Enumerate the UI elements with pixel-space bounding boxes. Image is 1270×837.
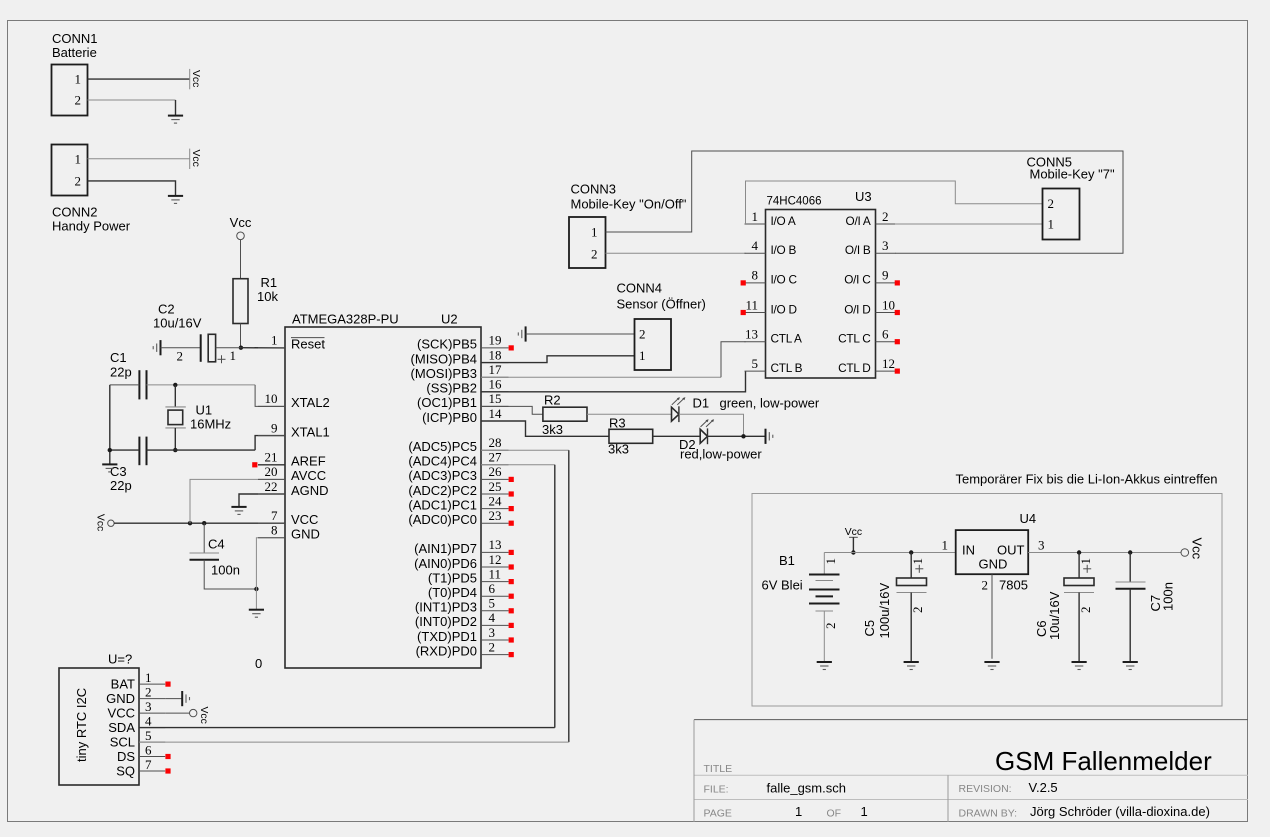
svg-text:7: 7: [271, 508, 278, 523]
junction C6 top: [1077, 550, 1081, 554]
svg-text:Vcc: Vcc: [845, 527, 862, 538]
crystal U1 16MHz: [174, 385, 176, 407]
svg-text:Vcc: Vcc: [230, 215, 252, 230]
svg-text:GSM Fallenmelder: GSM Fallenmelder: [995, 746, 1212, 776]
power section frame: [752, 494, 1222, 707]
U2 pin 9 XTAL1: [258, 435, 285, 437]
svg-text:C2: C2: [158, 302, 175, 317]
U2 pin 13 (AIN1)PD7: [481, 551, 509, 553]
svg-text:6: 6: [489, 581, 496, 596]
wire U2 pin18 to CONN4 pin1: [481, 356, 635, 363]
RTC pin 6 DS: [139, 756, 165, 758]
svg-text:Sensor (Öffner): Sensor (Öffner): [617, 297, 706, 312]
svg-text:1: 1: [752, 209, 759, 224]
resistor R1: [233, 279, 248, 324]
svg-text:(ADC0)PC0: (ADC0)PC0: [408, 512, 477, 527]
svg-text:6: 6: [145, 743, 152, 758]
svg-text:8: 8: [271, 523, 278, 538]
junction crystal top: [173, 383, 177, 387]
svg-text:1: 1: [75, 72, 82, 87]
junction LED gnd node: [741, 434, 745, 438]
svg-text:Reset: Reset: [291, 337, 325, 352]
unconnected marker U3 pin 10: [895, 310, 900, 315]
svg-text:20: 20: [265, 464, 278, 479]
svg-text:17: 17: [489, 362, 503, 377]
svg-text:tiny RTC I2C: tiny RTC I2C: [74, 688, 89, 762]
capacitor C6 10u/16V polarized: [1078, 553, 1080, 579]
svg-text:3: 3: [489, 625, 496, 640]
junction C5 top: [909, 550, 913, 554]
unconnected marker U2 pin 13: [509, 550, 514, 555]
unconnected marker U2 pin 11: [509, 579, 514, 584]
ground at CONN2: [168, 195, 183, 197]
svg-text:IN: IN: [962, 543, 975, 558]
U2 pin 19 (SCK)PB5: [481, 347, 509, 349]
svg-text:green, low-power: green, low-power: [720, 396, 820, 411]
svg-text:Vcc: Vcc: [1190, 538, 1205, 560]
svg-text:O/I D: O/I D: [844, 302, 870, 316]
svg-text:2: 2: [75, 173, 82, 188]
U2 pin 23 (ADC0)PC0: [481, 522, 509, 524]
svg-text:R3: R3: [609, 416, 626, 431]
wire RTC SDA: [139, 727, 555, 729]
svg-text:1: 1: [145, 670, 152, 685]
svg-text:CONN4: CONN4: [617, 281, 663, 296]
ground below C7: [1123, 661, 1138, 663]
wire CONN1 pin2 to ground: [88, 99, 176, 101]
svg-text:O/I B: O/I B: [845, 243, 871, 257]
U2 pin 24 (ADC1)PC1: [481, 508, 509, 510]
wire CONN3 pin1 loop to U3 O/I B: [606, 151, 1124, 253]
U2 pin 16 (SS)PB2: [481, 391, 509, 393]
U2 pin 7 VCC: [258, 522, 285, 524]
svg-text:5: 5: [145, 728, 152, 743]
U2 pin 1 Reset: [258, 347, 285, 349]
resistor R2 3k3: [543, 407, 587, 421]
svg-text:13: 13: [745, 327, 758, 342]
svg-text:1: 1: [861, 804, 868, 819]
capacitor C5 100u/16V polarized: [910, 553, 912, 579]
junction AVCC join: [188, 521, 192, 525]
wire XTAL2 net top rail: [110, 384, 140, 386]
capacitor C2 10u/16V polarized: [200, 334, 202, 362]
svg-text:Temporärer Fix bis die Li-Ion-: Temporärer Fix bis die Li-Ion-Akkus eint…: [956, 472, 1218, 487]
svg-text:(ADC5)PC5: (ADC5)PC5: [408, 439, 477, 454]
svg-text:Vcc: Vcc: [198, 707, 209, 724]
U2 pin 11 (T1)PD5: [481, 581, 509, 583]
svg-text:100n: 100n: [211, 563, 240, 578]
unconnected marker U2 pin 6: [509, 594, 514, 599]
wire ground to CONN4 pin2: [526, 333, 635, 335]
unconnected marker U3 pin 9: [895, 280, 900, 285]
unconnected marker RTC SQ: [165, 768, 170, 773]
svg-text:1: 1: [591, 224, 598, 239]
wire RTC VCC to Vcc: [165, 712, 189, 714]
svg-text:8: 8: [752, 268, 759, 283]
svg-text:1: 1: [795, 804, 802, 819]
unconnected marker U2 pin 23: [509, 521, 514, 526]
ground at RTC GND: [181, 691, 183, 706]
svg-text:1: 1: [75, 151, 82, 166]
svg-text:(INT0)PD2: (INT0)PD2: [415, 614, 477, 629]
svg-text:10u/16V: 10u/16V: [153, 316, 202, 331]
U2 pin 5 (INT1)PD3: [481, 610, 509, 612]
svg-text:(AIN0)PD6: (AIN0)PD6: [414, 556, 477, 571]
wire AGND to ground: [239, 494, 285, 507]
svg-text:25: 25: [489, 479, 502, 494]
junction GND net: [254, 587, 258, 591]
wire CONN3 pin2 to U3 I/O B: [606, 252, 746, 254]
svg-text:6: 6: [882, 327, 889, 342]
svg-text:3: 3: [145, 699, 152, 714]
svg-text:TITLE: TITLE: [704, 763, 733, 775]
connector CONN1: [52, 65, 88, 116]
svg-text:SCL: SCL: [110, 734, 135, 749]
svg-text:2: 2: [639, 326, 646, 341]
svg-text:Mobile-Key "7": Mobile-Key "7": [1030, 167, 1115, 182]
power Vcc at RTC VCC: [190, 709, 197, 716]
svg-text:O/I C: O/I C: [844, 273, 871, 287]
svg-text:(MOSI)PB3: (MOSI)PB3: [411, 366, 477, 381]
svg-text:12: 12: [882, 356, 895, 371]
svg-text:12: 12: [489, 552, 502, 567]
unconnected marker RTC DS: [165, 754, 170, 759]
svg-text:7805: 7805: [999, 578, 1028, 593]
wire CONN2 pin2 to ground: [88, 181, 176, 196]
svg-text:U4: U4: [1020, 511, 1037, 526]
RTC pin 4 SDA: [139, 727, 165, 729]
U3 pin 10 O/I D: [876, 312, 896, 314]
svg-text:27: 27: [489, 450, 503, 465]
IC RTC tiny RTC I2C U=?: [59, 668, 139, 785]
svg-text:GND: GND: [291, 527, 320, 542]
junction node Reset: [239, 346, 243, 350]
svg-text:26: 26: [489, 464, 503, 479]
svg-text:Vcc: Vcc: [95, 514, 106, 531]
svg-text:2: 2: [145, 685, 152, 700]
svg-text:Handy Power: Handy Power: [52, 219, 131, 234]
connector CONN4: [635, 319, 672, 370]
svg-text:OF: OF: [827, 808, 842, 820]
battery B1 6V Blei: [823, 553, 825, 575]
svg-text:BAT: BAT: [111, 676, 135, 691]
svg-text:0: 0: [255, 656, 262, 671]
svg-text:13: 13: [489, 537, 502, 552]
svg-text:(ICP)PB0: (ICP)PB0: [422, 410, 477, 425]
svg-text:1: 1: [942, 538, 949, 553]
svg-text:U2: U2: [441, 312, 458, 327]
svg-text:100u/16V: 100u/16V: [877, 583, 892, 639]
U2 pin 14 (ICP)PB0: [481, 420, 509, 422]
wire D2 to ground: [708, 435, 766, 437]
svg-text:XTAL1: XTAL1: [291, 424, 330, 439]
connector CONN2: [52, 145, 88, 196]
U3 pin 4 I/O B: [745, 252, 766, 254]
svg-text:(INT1)PD3: (INT1)PD3: [415, 600, 477, 615]
unconnected marker U3 pin 12: [895, 369, 900, 374]
svg-text:(SS)PB2: (SS)PB2: [426, 381, 477, 396]
capacitor C3 22p: [138, 437, 140, 466]
title block: [694, 719, 1248, 721]
svg-text:23: 23: [489, 508, 502, 523]
svg-text:C4: C4: [208, 537, 225, 552]
svg-text:REVISION:: REVISION:: [959, 783, 1012, 795]
wire U2 pin17 to U3 CTL A: [481, 376, 721, 378]
unconnected marker U2 pin 26: [509, 477, 514, 482]
svg-text:(ADC2)PC2: (ADC2)PC2: [408, 483, 477, 498]
U2 pin 21 AREF: [258, 464, 285, 466]
U2 pin 17 (MOSI)PB3: [481, 376, 509, 378]
svg-text:19: 19: [489, 333, 502, 348]
capacitor C4 100n: [203, 523, 205, 553]
svg-text:6V Blei: 6V Blei: [762, 578, 803, 593]
svg-text:22p: 22p: [110, 365, 132, 380]
U3 pin 5 CTL B: [745, 370, 766, 372]
RTC pin 2 GND: [139, 698, 165, 700]
U2 pin 28 (ADC5)PC5: [481, 449, 509, 451]
svg-text:9: 9: [882, 268, 889, 283]
svg-text:2: 2: [1048, 196, 1055, 211]
U2 pin 27 (ADC4)PC4: [481, 464, 509, 466]
wire U2 pin28 to SCL riser: [481, 449, 569, 451]
svg-text:(ADC4)PC4: (ADC4)PC4: [408, 454, 477, 469]
svg-text:2: 2: [591, 246, 598, 261]
ground right of D2: [765, 429, 767, 444]
RTC pin 1 BAT: [139, 683, 165, 685]
U2 pin 2 (RXD)PD0: [481, 654, 509, 656]
svg-text:DRAWN BY:: DRAWN BY:: [959, 808, 1018, 820]
svg-text:falle_gsm.sch: falle_gsm.sch: [767, 781, 846, 796]
svg-text:3: 3: [1038, 538, 1045, 553]
svg-text:ATMEGA328P-PU: ATMEGA328P-PU: [292, 312, 399, 327]
wire main 5V rail right: [1028, 552, 1181, 554]
svg-text:100n: 100n: [1161, 582, 1176, 611]
IC U3 74HC4066: [766, 210, 876, 379]
svg-text:(ADC1)PC1: (ADC1)PC1: [408, 497, 477, 512]
wire SCL riser: [568, 450, 570, 742]
svg-text:16MHz: 16MHz: [190, 417, 231, 432]
ground below U4: [984, 661, 999, 663]
svg-text:3k3: 3k3: [608, 442, 629, 457]
svg-text:2: 2: [823, 623, 838, 630]
wire U3 pin1 route to CONN5 pin2: [746, 181, 1043, 224]
U3 pin 8 I/O C: [745, 282, 766, 284]
unconnected marker U3 pin 6: [895, 339, 900, 344]
unconnected marker U2 pin 19: [509, 345, 514, 350]
svg-text:4: 4: [145, 714, 152, 729]
wire D1 to LED gnd node: [679, 414, 744, 436]
wire node Reset to U2 pin1: [241, 347, 285, 349]
svg-text:I/O A: I/O A: [771, 214, 796, 228]
svg-text:(OC1)PB1: (OC1)PB1: [417, 395, 477, 410]
svg-text:1: 1: [230, 348, 237, 363]
svg-text:22: 22: [265, 479, 278, 494]
wire CONN1 pin1 to Vcc: [88, 78, 190, 80]
U3 pin 3 O/I B: [876, 252, 896, 254]
svg-text:(MISO)PB4: (MISO)PB4: [411, 351, 477, 366]
svg-text:C3: C3: [110, 464, 127, 479]
svg-text:2: 2: [489, 639, 496, 654]
svg-text:O/I A: O/I A: [846, 214, 871, 228]
svg-text:(T1)PD5: (T1)PD5: [428, 570, 477, 585]
svg-text:11: 11: [745, 297, 758, 312]
wire U2 pin16 to U3 CTL B: [481, 371, 746, 392]
svg-text:FILE:: FILE:: [704, 784, 729, 796]
ground below C6: [1072, 661, 1087, 663]
svg-text:GND: GND: [106, 691, 135, 706]
svg-text:CTL C: CTL C: [838, 332, 871, 346]
svg-text:10: 10: [265, 391, 278, 406]
power Vcc at U2 VCC: [108, 520, 114, 526]
ground left of C2: [160, 340, 162, 355]
wire U3 pin2 to CONN5 pin1: [895, 223, 1043, 225]
svg-text:CONN1: CONN1: [52, 31, 98, 46]
wire ground to C2: [161, 347, 201, 349]
svg-text:10k: 10k: [257, 289, 278, 304]
svg-text:CONN3: CONN3: [571, 182, 617, 197]
unconnected marker U2 pin 21: [252, 462, 257, 467]
U2 pin 4 (INT0)PD2: [481, 624, 509, 626]
svg-text:10u/16V: 10u/16V: [1047, 591, 1062, 640]
svg-text:9: 9: [271, 420, 278, 435]
U2 pin 3 (TXD)PD1: [481, 639, 509, 641]
svg-text:AGND: AGND: [291, 483, 329, 498]
svg-text:Jörg Schröder (villa-dioxina.d: Jörg Schröder (villa-dioxina.de): [1030, 804, 1210, 819]
svg-text:Mobile-Key "On/Off": Mobile-Key "On/Off": [571, 197, 687, 212]
U4 pin2 GND down: [991, 574, 993, 659]
U2 pin 10 XTAL2: [258, 405, 285, 407]
unconnected marker U3 pin 8: [741, 280, 746, 285]
wire Vcc to U2 pin7: [114, 522, 285, 524]
ground at CONN1: [168, 115, 183, 117]
svg-text:Vcc: Vcc: [190, 70, 201, 87]
svg-text:R2: R2: [544, 393, 561, 408]
regulator U4 7805: [956, 530, 1028, 574]
svg-text:CONN2: CONN2: [52, 205, 98, 220]
wire AVCC to Vcc rail: [190, 479, 285, 523]
connector CONN5: [1043, 189, 1080, 240]
junction C7 top: [1128, 550, 1132, 554]
svg-text:5: 5: [752, 356, 759, 371]
svg-text:2: 2: [75, 93, 82, 108]
unconnected marker U2 pin 5: [509, 608, 514, 613]
svg-text:SDA: SDA: [108, 720, 135, 735]
U3 pin 2 O/I A: [876, 223, 896, 225]
svg-text:(ADC3)PC3: (ADC3)PC3: [408, 468, 477, 483]
svg-text:2: 2: [982, 578, 989, 593]
svg-text:R1: R1: [261, 275, 278, 290]
ground below C5: [904, 661, 919, 663]
unconnected marker U2 pin 3: [509, 637, 514, 642]
U3 pin 13 CTL A: [745, 341, 766, 343]
RTC pin 7 SQ: [139, 770, 165, 772]
power Vcc output right: [1181, 549, 1189, 557]
unconnected marker U2 pin 24: [509, 506, 514, 511]
U2 pin 20 AVCC: [258, 478, 285, 480]
svg-text:C1: C1: [110, 350, 127, 365]
U2 pin 6 (T0)PD4: [481, 595, 509, 597]
power Vcc at CONN1: [189, 69, 191, 89]
svg-text:(RXD)PD0: (RXD)PD0: [416, 643, 477, 658]
svg-text:21: 21: [265, 450, 278, 465]
svg-text:5: 5: [489, 596, 496, 611]
wire CONN2 pin1 to Vcc: [88, 158, 190, 160]
svg-text:3k3: 3k3: [542, 422, 563, 437]
LED D1 green: [672, 407, 679, 421]
junction C4 top: [202, 521, 206, 525]
svg-text:3: 3: [882, 238, 889, 253]
unconnected marker U3 pin 11: [741, 310, 746, 315]
svg-text:DS: DS: [117, 749, 135, 764]
unconnected marker U2 pin 12: [509, 564, 514, 569]
svg-text:24: 24: [489, 493, 503, 508]
svg-text:I/O C: I/O C: [771, 273, 798, 287]
U3 pin 9 O/I C: [876, 282, 896, 284]
svg-text:4: 4: [752, 238, 759, 253]
power Vcc at CONN2: [189, 149, 191, 169]
junction left bottom rail: [108, 448, 112, 452]
unconnected marker U2 pin 25: [509, 491, 514, 496]
svg-text:C5: C5: [862, 620, 877, 637]
IC U2 ATMEGA328P-PU: [285, 327, 481, 668]
svg-text:1: 1: [910, 558, 925, 565]
svg-text:14: 14: [489, 406, 503, 421]
svg-text:2: 2: [910, 607, 925, 614]
LED D2 red: [700, 429, 707, 443]
svg-text:CTL B: CTL B: [771, 361, 803, 375]
ground at CONN4 pin2 net: [525, 326, 527, 341]
svg-text:CTL A: CTL A: [771, 332, 802, 346]
svg-text:(T0)PD4: (T0)PD4: [428, 585, 477, 600]
wire U2 pin15 to R2: [481, 406, 543, 414]
wire left vertical to ground: [109, 385, 111, 464]
wire RTC GND to ground: [165, 698, 182, 700]
junction crystal bottom: [173, 448, 177, 452]
svg-text:15: 15: [489, 391, 502, 406]
junction Vcc rail: [851, 550, 855, 554]
svg-text:OUT: OUT: [997, 543, 1025, 558]
wire U2 pin27 to SDA riser: [481, 464, 555, 466]
svg-text:AREF: AREF: [291, 454, 326, 469]
wire SDA riser: [554, 465, 556, 728]
svg-text:1: 1: [1078, 558, 1093, 565]
svg-text:XTAL2: XTAL2: [291, 395, 330, 410]
wire XTAL1 net bottom rail: [110, 449, 140, 451]
U2 pin 12 (AIN0)PD6: [481, 566, 509, 568]
wire main 6V rail left: [824, 552, 955, 554]
ground below B1: [817, 661, 832, 663]
svg-text:(AIN1)PD7: (AIN1)PD7: [414, 541, 477, 556]
svg-text:U3: U3: [855, 189, 872, 204]
svg-text:74HC4066: 74HC4066: [767, 196, 822, 208]
svg-text:Vcc: Vcc: [190, 150, 201, 167]
ground at AGND: [231, 506, 246, 508]
svg-text:(TXD)PD1: (TXD)PD1: [417, 629, 477, 644]
unconnected marker U2 pin 4: [509, 623, 514, 628]
U2 pin 25 (ADC2)PC2: [481, 493, 509, 495]
U2 pin 8 GND: [258, 537, 285, 539]
svg-text:11: 11: [489, 566, 502, 581]
svg-text:U1: U1: [196, 403, 213, 418]
wire U2 pin8 GND down: [256, 538, 285, 610]
wire Vcc to R1: [240, 240, 242, 279]
svg-text:16: 16: [489, 377, 503, 392]
svg-text:1: 1: [1048, 217, 1055, 232]
U2 pin 22 AGND: [258, 493, 285, 495]
wire U2 pin14 to R3: [481, 421, 609, 436]
svg-text:GND: GND: [979, 557, 1008, 572]
connector CONN3: [569, 217, 606, 268]
